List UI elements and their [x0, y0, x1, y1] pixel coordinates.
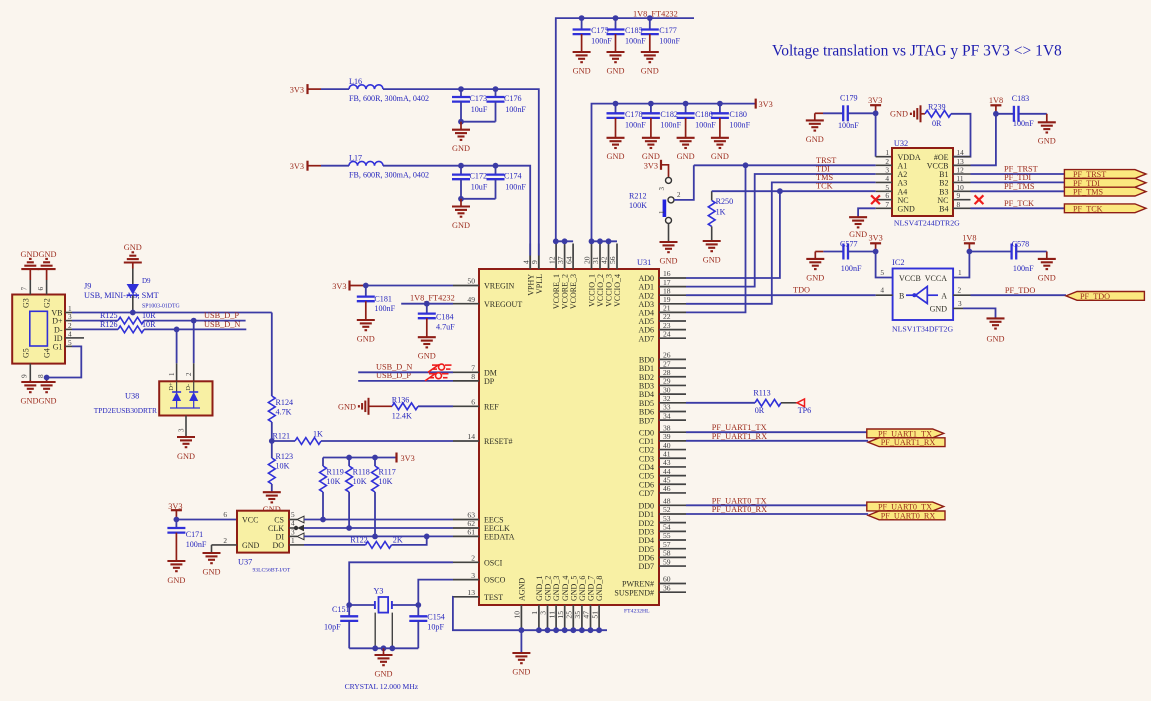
- wire OSCO: [418, 580, 453, 605]
- svg-text:CD2: CD2: [639, 446, 654, 455]
- svg-text:B2: B2: [939, 179, 948, 188]
- svg-text:2: 2: [185, 372, 193, 376]
- svg-text:5: 5: [291, 510, 295, 519]
- svg-text:CD7: CD7: [639, 489, 654, 498]
- svg-text:10K: 10K: [379, 477, 393, 486]
- svg-text:R126: R126: [100, 320, 118, 329]
- ground below C184: [418, 337, 436, 360]
- wire TMS net: [686, 182, 876, 303]
- svg-text:VCCB: VCCB: [899, 274, 921, 283]
- svg-text:GND: GND: [375, 669, 393, 678]
- resistor R126 10R: [72, 320, 246, 333]
- svg-text:PF_TMS: PF_TMS: [1004, 182, 1035, 191]
- svg-text:55: 55: [663, 531, 671, 540]
- svg-text:C171: C171: [186, 530, 204, 539]
- svg-text:CRYSTAL 12.000 MHz: CRYSTAL 12.000 MHz: [345, 682, 419, 691]
- svg-text:53: 53: [663, 514, 671, 523]
- svg-text:2: 2: [958, 286, 962, 295]
- svg-text:R125: R125: [100, 311, 118, 320]
- svg-text:R212: R212: [629, 191, 647, 200]
- svg-text:GND: GND: [338, 402, 356, 411]
- wire VCCIO bus 3V3: [589, 238, 617, 244]
- svg-text:C181: C181: [374, 294, 392, 303]
- svg-text:51: 51: [590, 611, 599, 619]
- svg-text:6: 6: [36, 287, 45, 291]
- ground below C181: [357, 320, 375, 343]
- svg-text:3V3: 3V3: [868, 96, 882, 105]
- svg-text:0R: 0R: [755, 406, 765, 415]
- svg-text:VCCA: VCCA: [925, 274, 947, 283]
- svg-text:11: 11: [957, 174, 964, 183]
- svg-text:EEDATA: EEDATA: [484, 533, 515, 542]
- svg-text:GND: GND: [418, 352, 436, 361]
- junction dots AGND bus: [519, 627, 602, 633]
- wire EECLK: [304, 527, 453, 529]
- svg-text:C182: C182: [660, 110, 678, 119]
- net label PF_TDI: [1004, 173, 1031, 182]
- connector J9 USB MINI-AB: [12, 280, 158, 380]
- svg-text:R118: R118: [353, 468, 370, 477]
- svg-text:B: B: [899, 292, 904, 301]
- svg-text:C578: C578: [1012, 240, 1030, 249]
- capacitor C154 10pF: [409, 605, 445, 648]
- wire J9 G1 loop to pin8: [44, 346, 82, 380]
- svg-text:9: 9: [20, 374, 29, 378]
- net label TRST: [816, 156, 836, 165]
- svg-text:C175: C175: [591, 26, 609, 35]
- svg-text:GND: GND: [641, 66, 659, 75]
- svg-text:D9: D9: [142, 277, 151, 285]
- IC U38 TPD2EUSB30DRTR: [94, 381, 213, 415]
- svg-text:100nF: 100nF: [505, 183, 526, 192]
- svg-text:DD4: DD4: [638, 536, 654, 545]
- svg-text:5: 5: [68, 338, 72, 347]
- svg-text:10pF: 10pF: [427, 623, 444, 632]
- svg-text:3V3: 3V3: [868, 234, 882, 243]
- svg-text:DO: DO: [272, 541, 284, 550]
- svg-text:DD3: DD3: [638, 527, 654, 536]
- power net 3V3 at IC2 VCCB: [868, 234, 882, 255]
- wire PF_UART1_RX CD1: [686, 440, 868, 442]
- capacitor C177 100nF: [641, 18, 681, 52]
- net label PF_UART1_RX: [712, 432, 767, 441]
- svg-text:FB, 600R, 300mA, 0402: FB, 600R, 300mA, 0402: [349, 171, 429, 180]
- svg-text:D+: D+: [52, 317, 63, 326]
- wire PF_TMS B3: [971, 190, 1065, 192]
- svg-text:TCK: TCK: [816, 182, 833, 191]
- svg-text:4: 4: [880, 286, 884, 295]
- svg-text:PF_UART0_TX: PF_UART0_TX: [712, 496, 767, 505]
- svg-text:1: 1: [958, 268, 962, 277]
- svg-text:10K: 10K: [353, 477, 367, 486]
- svg-text:C151: C151: [332, 605, 350, 614]
- svg-text:26: 26: [663, 351, 671, 360]
- svg-text:3V3: 3V3: [332, 282, 346, 291]
- port flag PF_UART1_RX: [868, 438, 945, 447]
- ground below R250: [703, 241, 721, 264]
- svg-text:R121: R121: [273, 432, 291, 441]
- ground below U32 pin7: [849, 217, 867, 239]
- port flag PF_TDI: [1064, 178, 1146, 187]
- svg-text:C174: C174: [504, 171, 522, 180]
- capacitor C151 10pF: [324, 605, 358, 648]
- svg-text:G1: G1: [53, 342, 63, 351]
- svg-text:CD0: CD0: [639, 428, 654, 437]
- capacitor C183 100nF: [996, 94, 1047, 128]
- wire PF_UART0_RX DD1: [686, 513, 868, 515]
- svg-text:100nF: 100nF: [729, 120, 750, 129]
- port flag PF_UART0_RX: [868, 511, 945, 520]
- svg-text:BD4: BD4: [639, 390, 654, 399]
- jumper R212 100K: [629, 177, 681, 242]
- power net 3V3 at VREGIN: [332, 281, 366, 292]
- svg-text:1: 1: [168, 372, 176, 376]
- wire PF_TRST B1: [971, 173, 1065, 175]
- wire VCCB 1V8: [953, 114, 996, 166]
- svg-text:FT4232HL: FT4232HL: [624, 609, 650, 615]
- svg-text:13: 13: [467, 588, 475, 597]
- svg-text:DD5: DD5: [638, 545, 654, 554]
- svg-text:100nF: 100nF: [374, 304, 395, 313]
- wire C172 C174 common: [458, 196, 495, 202]
- text crystal 12MHz: [345, 682, 419, 691]
- wire VDDA: [876, 113, 892, 156]
- svg-text:GND: GND: [703, 255, 721, 264]
- svg-text:PF_TCK: PF_TCK: [1004, 199, 1034, 208]
- svg-text:8: 8: [36, 374, 45, 378]
- svg-text:DD0: DD0: [638, 501, 654, 510]
- svg-text:GND: GND: [930, 305, 948, 314]
- net 3V3 rail caps: [592, 99, 773, 242]
- capacitor C578 100nF: [969, 240, 1046, 274]
- net label TCK: [816, 182, 833, 191]
- svg-text:1V8_FT4232: 1V8_FT4232: [410, 294, 455, 303]
- resistor R125 10R: [72, 311, 246, 324]
- svg-text:R117: R117: [379, 468, 396, 477]
- svg-text:PF_TDO: PF_TDO: [1080, 292, 1110, 301]
- svg-text:3V3: 3V3: [759, 100, 773, 109]
- wire VCORE bus 1V8: [553, 238, 573, 244]
- svg-text:100nF: 100nF: [591, 37, 612, 46]
- svg-text:PF_UART0_RX: PF_UART0_RX: [881, 511, 936, 520]
- svg-text:34: 34: [663, 411, 671, 420]
- svg-text:USB_D_N: USB_D_N: [376, 363, 412, 372]
- svg-text:IC2: IC2: [892, 258, 904, 267]
- resistor R117 10K: [372, 458, 396, 540]
- ground below U38: [177, 437, 195, 461]
- svg-text:3: 3: [658, 187, 666, 191]
- ground at C179: [806, 113, 824, 144]
- resistor R121 1K: [272, 430, 453, 445]
- svg-text:TDO: TDO: [793, 286, 810, 295]
- resistor R118 10K: [346, 458, 370, 531]
- svg-text:28: 28: [663, 368, 671, 377]
- svg-text:GND: GND: [242, 541, 260, 550]
- ground below U37 pin2: [203, 553, 221, 576]
- capacitor C176 100nF: [487, 89, 527, 122]
- svg-text:36: 36: [663, 583, 671, 592]
- capacitor C185 100nF: [607, 18, 647, 52]
- svg-text:BD3: BD3: [639, 382, 654, 391]
- net label PF_UART0_TX: [712, 496, 767, 505]
- svg-text:A: A: [941, 292, 947, 301]
- svg-text:3: 3: [471, 571, 475, 580]
- ground below C185: [607, 52, 625, 75]
- svg-text:59: 59: [663, 557, 671, 566]
- svg-text:100nF: 100nF: [659, 37, 680, 46]
- svg-text:R113: R113: [753, 388, 770, 397]
- svg-text:46: 46: [663, 484, 671, 493]
- ground at C578: [1038, 252, 1056, 283]
- wire PF_TDI B2: [971, 181, 1065, 183]
- svg-text:GND: GND: [711, 152, 729, 161]
- svg-text:56: 56: [608, 256, 617, 264]
- wire VREGIN: [363, 283, 453, 289]
- svg-text:Voltage translation vs JTAG y: Voltage translation vs JTAG y PF 3V3 <> …: [772, 43, 1062, 60]
- wire IC2 VCCB pin5: [876, 252, 893, 278]
- power net 3V3 stub L17 row: [290, 161, 321, 171]
- net label PF_TDO: [1005, 286, 1035, 295]
- svg-text:DD6: DD6: [638, 553, 654, 562]
- svg-text:AD7: AD7: [638, 334, 654, 343]
- svg-text:PF_TDI: PF_TDI: [1004, 173, 1031, 182]
- svg-text:VCC: VCC: [242, 516, 258, 525]
- svg-text:GND: GND: [849, 230, 867, 239]
- svg-text:100nF: 100nF: [625, 120, 646, 129]
- svg-text:C176: C176: [504, 94, 522, 103]
- svg-text:CD3: CD3: [639, 454, 654, 463]
- svg-text:10R: 10R: [142, 311, 156, 320]
- svg-text:TEST: TEST: [484, 593, 503, 602]
- svg-text:100nF: 100nF: [625, 37, 646, 46]
- svg-text:VREGOUT: VREGOUT: [484, 300, 522, 309]
- svg-text:54: 54: [663, 523, 671, 532]
- wire R239 to OE: [951, 114, 971, 157]
- svg-text:45: 45: [663, 475, 671, 484]
- svg-text:PF_UART0_TX: PF_UART0_TX: [878, 503, 932, 512]
- port flag PF_TDO: [1066, 292, 1144, 301]
- svg-text:GND: GND: [452, 221, 470, 230]
- resistor R123 10K: [268, 438, 293, 492]
- svg-text:CD4: CD4: [639, 463, 654, 472]
- svg-text:OSCO: OSCO: [484, 576, 506, 585]
- wire U37 VCC: [174, 517, 238, 523]
- wire EECS: [304, 519, 453, 521]
- svg-text:R239: R239: [928, 103, 946, 112]
- capacitor C182 100nF: [642, 104, 682, 138]
- svg-text:10: 10: [513, 611, 522, 619]
- wire L17 to VPHY: [321, 163, 530, 269]
- svg-text:9: 9: [530, 260, 539, 264]
- svg-text:NLSV1T34DFT2G: NLSV1T34DFT2G: [892, 325, 953, 334]
- svg-text:GND: GND: [177, 452, 195, 461]
- svg-text:C183: C183: [1012, 94, 1030, 103]
- svg-text:GND: GND: [124, 243, 142, 252]
- ground below C186: [677, 138, 695, 161]
- svg-text:G2: G2: [43, 298, 52, 308]
- svg-text:G4: G4: [43, 348, 52, 358]
- svg-text:G5: G5: [22, 348, 31, 358]
- svg-text:VREGIN: VREGIN: [484, 282, 514, 291]
- svg-text:R136: R136: [392, 395, 410, 404]
- svg-text:U37: U37: [238, 558, 252, 567]
- svg-text:2: 2: [677, 191, 681, 199]
- svg-text:100nF: 100nF: [1013, 264, 1034, 273]
- ground below C182: [642, 138, 660, 161]
- svg-text:93LC56BT-I/OT: 93LC56BT-I/OT: [253, 568, 291, 574]
- side ground at R136: [338, 398, 392, 415]
- wire PF_TDO: [953, 286, 1066, 296]
- wire TRST net: [686, 162, 876, 312]
- svg-text:100nF: 100nF: [1013, 119, 1034, 128]
- svg-text:10K: 10K: [327, 477, 341, 486]
- svg-text:DP: DP: [484, 377, 495, 386]
- svg-text:PF_TDI: PF_TDI: [1073, 179, 1100, 188]
- svg-text:NLSV4T244DTR2G: NLSV4T244DTR2G: [894, 218, 960, 227]
- svg-text:7: 7: [20, 287, 29, 291]
- svg-text:R124: R124: [276, 398, 294, 407]
- svg-text:U32: U32: [894, 139, 908, 148]
- test point TP6: [781, 399, 811, 415]
- svg-text:PWREN#: PWREN#: [622, 580, 654, 589]
- resistor R113 0R: [686, 388, 781, 415]
- net label USB_D_P at DP: [376, 371, 411, 380]
- capacitor C173 10uF: [452, 89, 488, 122]
- svg-text:3V3: 3V3: [290, 85, 304, 94]
- svg-text:5: 5: [880, 268, 884, 277]
- svg-text:PF_TRST: PF_TRST: [1073, 170, 1106, 179]
- svg-text:BD1: BD1: [639, 364, 654, 373]
- svg-text:4.7uF: 4.7uF: [436, 322, 455, 331]
- ground below C177: [641, 52, 659, 75]
- svg-text:24: 24: [663, 329, 671, 338]
- diode D9 SP1003-01DTG: [127, 269, 180, 316]
- ground below IC2 pin3: [987, 318, 1005, 343]
- svg-text:A3: A3: [898, 179, 908, 188]
- wire PF_UART0_TX DD0: [686, 504, 867, 506]
- svg-text:7: 7: [885, 200, 889, 209]
- svg-text:3: 3: [958, 299, 962, 308]
- wire PF_TCK B4: [971, 207, 1065, 209]
- wire R212 tap to TRST: [674, 165, 694, 200]
- svg-text:1V8: 1V8: [989, 96, 1003, 105]
- capacitor C178 100nF: [607, 104, 647, 138]
- port flag PF_TMS: [1064, 187, 1146, 196]
- svg-text:FB, 600R, 300mA, 0402: FB, 600R, 300mA, 0402: [349, 94, 429, 103]
- ground below C180: [711, 138, 729, 161]
- svg-text:100nF: 100nF: [838, 121, 859, 130]
- capacitor C172 10uF: [452, 166, 488, 199]
- svg-text:PF_TDO: PF_TDO: [1005, 286, 1035, 295]
- svg-text:GND: GND: [677, 152, 695, 161]
- resistor R250 1K: [708, 191, 733, 241]
- svg-text:SP1003-01DTG: SP1003-01DTG: [142, 304, 180, 310]
- power net 3V3 pullup bus: [323, 453, 415, 464]
- svg-text:B4: B4: [939, 204, 948, 213]
- svg-text:VCCIO_4: VCCIO_4: [613, 274, 622, 307]
- svg-text:100nF: 100nF: [841, 264, 862, 273]
- svg-text:48: 48: [663, 497, 671, 506]
- svg-text:3: 3: [178, 428, 186, 432]
- svg-text:PF_UART1_TX: PF_UART1_TX: [878, 429, 932, 438]
- capacitor C184 4.7uF: [418, 304, 455, 338]
- svg-text:R119: R119: [327, 468, 344, 477]
- svg-text:10uF: 10uF: [471, 183, 488, 192]
- svg-text:6: 6: [223, 510, 227, 519]
- power net 3V3 at U37: [168, 502, 182, 520]
- net label PF_TRST: [1004, 165, 1038, 174]
- svg-text:39: 39: [663, 432, 671, 441]
- net label PF_TMS: [1004, 182, 1035, 191]
- svg-text:12.4K: 12.4K: [392, 411, 412, 420]
- capacitor C180 100nF: [711, 104, 751, 138]
- IC U32 NLSV4T244DTR2G: [876, 139, 971, 227]
- wire TDO net: [686, 294, 876, 296]
- svg-text:RESET#: RESET#: [484, 437, 512, 446]
- crystal Y3: [346, 587, 421, 649]
- svg-text:PF_UART1_RX: PF_UART1_RX: [712, 432, 767, 441]
- svg-text:SUSPEND#: SUSPEND#: [614, 588, 654, 597]
- svg-text:GND: GND: [452, 144, 470, 153]
- svg-text:100nF: 100nF: [186, 540, 207, 549]
- ground below C173: [452, 122, 470, 153]
- svg-text:C186: C186: [695, 110, 713, 119]
- svg-text:CD6: CD6: [639, 480, 654, 489]
- capacitor C174 100nF: [487, 166, 527, 199]
- wire IC2 GND pin3: [953, 299, 995, 318]
- svg-text:44: 44: [663, 467, 671, 476]
- svg-text:C180: C180: [729, 110, 747, 119]
- net 1V8_FT4232 at VREGOUT: [401, 294, 455, 307]
- wire PF_UART1_TX CD0: [686, 431, 867, 433]
- svg-text:2: 2: [223, 536, 227, 545]
- ground at C577: [806, 252, 824, 283]
- ground at C183: [1038, 114, 1056, 146]
- svg-text:4.7K: 4.7K: [276, 408, 292, 417]
- wire U38 riser pin1: [168, 329, 177, 381]
- net label USB_D_P: [204, 311, 239, 320]
- svg-text:GND: GND: [890, 110, 908, 119]
- wire crystal ground rail: [349, 645, 418, 651]
- wire EEDATA: [304, 534, 453, 540]
- svg-text:33: 33: [663, 403, 671, 412]
- svg-text:10pF: 10pF: [324, 623, 341, 632]
- resistor R124 4.7K: [268, 313, 293, 442]
- wire TDI net: [686, 174, 876, 287]
- svg-text:3: 3: [68, 312, 72, 321]
- port flag PF_UART0_TX: [867, 502, 944, 511]
- svg-text:VPLL: VPLL: [535, 274, 544, 294]
- svg-text:J9: J9: [84, 282, 91, 291]
- svg-text:BD5: BD5: [639, 399, 654, 408]
- svg-text:GND: GND: [607, 152, 625, 161]
- svg-text:R122: R122: [350, 536, 368, 545]
- net label USB_D_N at DM: [376, 363, 412, 372]
- IC2 NLSV1T34DFT2G: [892, 258, 953, 334]
- svg-text:10K: 10K: [276, 462, 290, 471]
- ground pair below J9: [21, 378, 57, 406]
- svg-text:C178: C178: [625, 110, 643, 119]
- svg-text:VCORE_3: VCORE_3: [569, 274, 578, 309]
- power net 1V8 at IC2 VCCA: [962, 234, 976, 255]
- svg-text:0R: 0R: [932, 119, 942, 128]
- ground below C175: [573, 52, 591, 75]
- svg-text:C173: C173: [470, 94, 488, 103]
- svg-text:58: 58: [663, 549, 671, 558]
- svg-text:GNDGND: GNDGND: [21, 397, 57, 406]
- capacitor C175 100nF: [573, 18, 613, 52]
- svg-text:PF_UART1_RX: PF_UART1_RX: [881, 438, 936, 447]
